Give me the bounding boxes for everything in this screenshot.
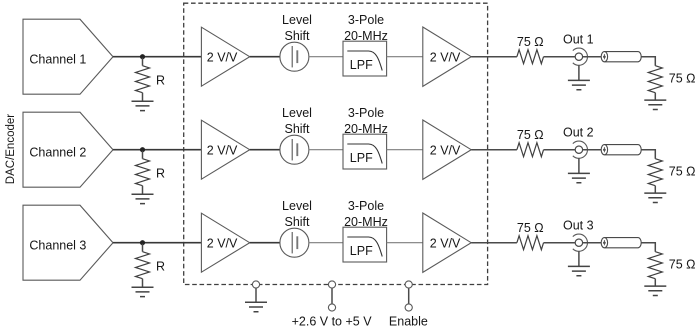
svg-text:Enable: Enable [389, 314, 428, 326]
svg-text:+2.6 V to +5 V: +2.6 V to +5 V [292, 314, 373, 326]
svg-text:Channel 1: Channel 1 [29, 52, 86, 66]
svg-text:Out 1: Out 1 [563, 33, 594, 47]
svg-text:Out 3: Out 3 [563, 219, 594, 233]
svg-text:Out 2: Out 2 [563, 126, 594, 140]
svg-text:DAC/Encoder: DAC/Encoder [5, 114, 17, 184]
svg-text:Channel 2: Channel 2 [29, 145, 86, 159]
svg-text:Channel 3: Channel 3 [29, 238, 86, 252]
